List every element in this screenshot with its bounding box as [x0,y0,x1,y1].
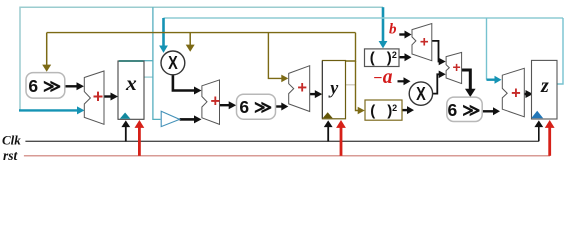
multiplier M1 [161,51,185,75]
wire: rst vertical to register y [340,128,343,156]
clock edge triangle of register z [531,111,543,119]
adder A5 (before register z) [502,68,524,117]
wire: thick teal down into multiplier M1 [162,18,165,47]
wire: adder A4 output elbow to adder A6 [432,41,441,62]
svg-text:b: b [389,22,397,38]
svg-text:2: 2 [392,103,397,113]
wire: shifter B2 to adder A3y lower input [276,105,283,107]
wire: Clk vertical to register y [327,127,329,142]
wire: adder A6 output elbow down into shifter B3 [462,70,471,90]
register z [531,60,557,119]
wire: register y mid output stub [346,84,356,86]
wire: adder A5 to register z [524,93,527,95]
wire: olive branch into multiplier M1 [189,33,191,46]
wire: Clk distribution line [25,140,538,142]
wire: squarer S1 to adder A4 lower input [399,56,406,58]
wire: rst vertical to register z [548,128,551,156]
wire: adder A1 to register x [104,95,113,97]
clock edge triangle of register x [120,113,131,119]
svg-text:(: ( [370,50,375,67]
svg-text:−a: −a [373,67,393,88]
wire: Clk vertical to register x [125,127,127,142]
wire: multiplier M2 output elbow to adder A6 lower input [433,74,441,93]
adder A6 (sum before shifter B3) [446,52,462,83]
wire: teal branch into adder A5 [486,18,488,80]
adder A3y (before register y) [289,66,310,112]
svg-text:Clk: Clk [2,132,21,147]
wire: rst distribution line [24,155,550,157]
svg-text:x: x [125,71,137,95]
register x [118,61,144,119]
squarer S1 [365,49,400,67]
wire: thick teal into adder A1 lower input [19,109,79,111]
wire: squarer S2 to multiplier M2 [402,109,409,111]
svg-text:+: + [453,59,461,75]
svg-text:6 ≫: 6 ≫ [239,97,272,117]
wire: olive branch into shifter B1 [46,33,48,66]
wire: shifter B1 to adder A1 [65,85,79,87]
svg-text:+: + [93,87,104,107]
wire: b input arrow [399,33,405,35]
wire: rst vertical to register x [138,128,141,156]
wire: y output olive net [346,33,356,61]
gain G1 (unity buffer triangle) [161,111,179,126]
adder A1 [84,71,104,124]
svg-text:X: X [168,52,178,73]
svg-text:2: 2 [392,50,397,60]
shifter B3 [447,97,482,121]
wire: node vertical x=153 [153,7,161,119]
wire: Clk vertical to register z [538,122,540,141]
svg-text:+: + [511,85,521,103]
wire: z feedback right vertical from register z output [557,18,563,84]
shifter B2 [237,94,276,119]
svg-text:X: X [416,83,426,104]
svg-text:+: + [420,34,429,51]
adder A4 (b + x^2) [412,24,432,61]
wire: gain G1 to adder A2 lower input [180,118,196,121]
svg-text:6 ≫: 6 ≫ [28,76,61,96]
wire: shifter B3 to adder A5 lower input [482,110,494,112]
svg-text:6 ≫: 6 ≫ [448,100,481,120]
svg-text:y: y [328,78,339,98]
register y [322,61,345,119]
wire: multiplier M1 output to adder A2 [173,75,196,91]
wire: adder A3y to register y [310,93,317,95]
wire: x feedback top line A [20,7,383,109]
svg-text:z: z [540,75,549,97]
wire: olive main horizontal [47,32,356,34]
shifter B1 [26,73,65,99]
wire: olive branch into adder A3y upper input [268,33,283,79]
adder A2 [202,80,220,125]
wire: thick teal down into squarer S1 [382,7,385,42]
svg-text:(: ( [370,103,375,120]
svg-text:+: + [297,79,307,97]
wire: register x output to node [144,60,153,62]
wire: olive branch down into squarer S2 [356,61,360,111]
wire: adder A2 to shifter B2 [220,104,231,106]
wire: register x mid output stub [144,76,153,78]
wire: minus-a input arrow into multiplier M2 [398,80,406,82]
svg-text:+: + [210,93,220,111]
clock edge triangle of register y [323,112,333,118]
svg-text:rst: rst [3,148,19,163]
squarer S2 [365,100,402,120]
multiplier M2 [409,82,432,105]
wire: z feedback line B [164,17,564,19]
